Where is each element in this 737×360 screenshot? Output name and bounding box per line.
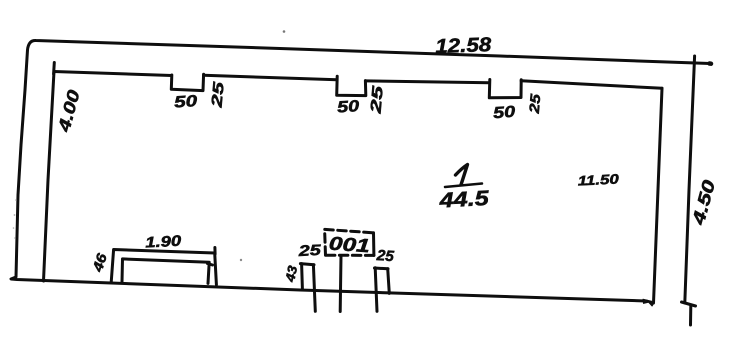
tick bottom of 4.50 line <box>682 302 696 306</box>
svg-text:50: 50 <box>337 98 360 117</box>
table inner rectangle <box>122 259 209 284</box>
svg-text:001: 001 <box>328 234 370 258</box>
fraction line <box>445 184 482 188</box>
svg-text:44.5: 44.5 <box>438 187 490 213</box>
svg-text:4.50: 4.50 <box>688 178 719 228</box>
svg-text:4.00: 4.00 <box>54 87 84 134</box>
svg-text:50: 50 <box>174 93 198 112</box>
svg-text:25: 25 <box>208 80 227 109</box>
door right post (through wall) <box>375 268 377 312</box>
arrowhead bottom wall right end <box>643 299 652 303</box>
arrowhead wall right bottom <box>647 300 654 306</box>
svg-text:50: 50 <box>493 104 516 123</box>
wall left (4.00 dimension) <box>44 72 55 282</box>
window W3 notch <box>489 80 521 98</box>
wall top segment B <box>204 75 337 80</box>
door left jamb <box>300 264 304 289</box>
svg-text:25: 25 <box>367 84 387 115</box>
dimension line 12.58 with left border and bottom wall (one stroke) <box>11 40 710 301</box>
table outer top-right tick <box>213 248 216 255</box>
room number 1 <box>456 165 468 185</box>
window W2 notch <box>337 76 366 95</box>
svg-text:11.50: 11.50 <box>577 171 619 188</box>
svg-text:25: 25 <box>297 242 322 260</box>
svg-text:1.90: 1.90 <box>145 233 183 252</box>
end dot of 12.58 dimension line <box>710 61 712 66</box>
table inner right tick <box>208 264 213 266</box>
svg-text:25: 25 <box>375 247 395 265</box>
wall top segment D <box>521 81 662 89</box>
door right jamb top bar <box>375 267 389 271</box>
door centre line from 001 box <box>339 256 343 312</box>
wall top segment C <box>366 81 490 83</box>
scan speckles <box>13 30 286 261</box>
tick at top-left room corner <box>52 63 56 75</box>
svg-text:25: 25 <box>526 93 544 115</box>
door left jamb top bar <box>300 264 314 265</box>
tail below 4.50 tick <box>689 306 692 325</box>
wall top segment A <box>54 72 172 76</box>
svg-text:12.58: 12.58 <box>435 34 493 58</box>
table outer rectangle <box>111 250 216 285</box>
svg-text:43: 43 <box>282 264 300 285</box>
svg-text:46: 46 <box>89 251 110 274</box>
dimension line 4.50 right <box>685 56 695 303</box>
window W1 notch <box>171 74 203 90</box>
wall right <box>654 88 663 303</box>
room 001 dashed box <box>325 229 374 255</box>
door left post (through wall) <box>313 265 315 312</box>
door right jamb <box>388 269 390 294</box>
